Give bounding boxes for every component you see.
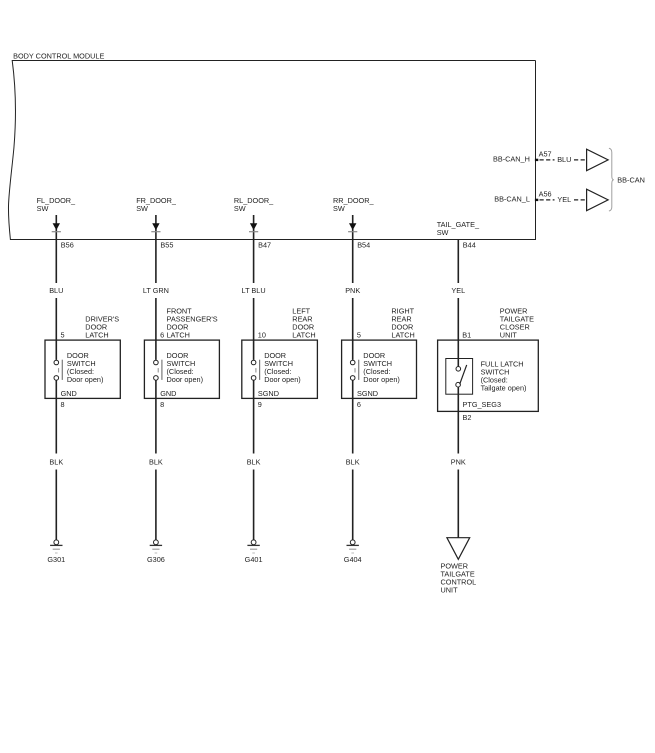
svg-text:G301: G301 xyxy=(47,555,65,564)
pin 5 (latch top) xyxy=(357,331,361,340)
pin tick A57 xyxy=(535,159,538,161)
label left rear door latch xyxy=(292,307,315,340)
label DOOR SWITCH (Closed: Door open) xyxy=(67,351,104,384)
svg-text:A57: A57 xyxy=(539,149,552,158)
svg-text:8: 8 xyxy=(160,400,164,409)
svg-text:G401: G401 xyxy=(245,555,263,564)
pin B47 xyxy=(258,240,271,249)
svg-text:B2: B2 xyxy=(463,413,472,422)
svg-text:BLK: BLK xyxy=(49,457,63,466)
svg-text:8: 8 xyxy=(61,400,65,409)
svg-text:PNK: PNK xyxy=(451,457,466,466)
wire BCM FL_DOOR_ stub with arrowhead xyxy=(52,215,61,240)
svg-text:PNK: PNK xyxy=(345,286,360,295)
B-CAN bus brace xyxy=(609,148,614,211)
wire LT GRN from pin B55 to latch xyxy=(155,240,157,341)
svg-text:LT BLU: LT BLU xyxy=(242,286,266,295)
label FULL LATCH SWITCH (Closed: Tailgate open) xyxy=(481,360,527,393)
svg-text:G404: G404 xyxy=(344,555,362,564)
wire BLK from front passenger's door latch to ground G306 xyxy=(155,380,157,540)
node BB-CAN_H label xyxy=(493,155,530,164)
svg-text:SGND: SGND xyxy=(357,389,378,398)
pin 5 (latch top) xyxy=(61,331,65,340)
svg-text:6: 6 xyxy=(160,331,164,340)
ground G404 xyxy=(344,540,362,564)
wire YEL from pin B44 to power tailgate closer unit xyxy=(457,240,459,341)
svg-text:GND: GND xyxy=(160,389,176,398)
svg-text:LT GRN: LT GRN xyxy=(143,286,169,295)
svg-text:B54: B54 xyxy=(357,240,370,249)
wire BLU from pin B56 to latch xyxy=(55,240,57,341)
svg-text:BLK: BLK xyxy=(149,457,163,466)
label power tailgate closer unit xyxy=(500,307,534,340)
svg-text:BLK: BLK xyxy=(247,457,261,466)
svg-text:A56: A56 xyxy=(539,189,552,198)
wire BLK from left rear door latch to ground G401 xyxy=(253,380,255,540)
wire PNK from pin B54 to latch xyxy=(352,240,354,341)
wire BLK from right rear door latch to ground G404 xyxy=(352,380,354,540)
svg-text:LATCH: LATCH xyxy=(391,331,414,340)
pin 10 (latch top) xyxy=(258,331,266,340)
svg-text:YEL: YEL xyxy=(557,195,571,204)
svg-text:Door open): Door open) xyxy=(67,375,104,384)
svg-text:BLK: BLK xyxy=(346,457,360,466)
label DOOR SWITCH (Closed: Door open) xyxy=(363,351,400,384)
CAN low buffer triangle xyxy=(587,189,609,210)
svg-text:6: 6 xyxy=(357,400,361,409)
svg-text:B1: B1 xyxy=(462,331,471,340)
svg-text:BB-CAN_L: BB-CAN_L xyxy=(494,195,530,204)
CAN high buffer triangle xyxy=(587,149,609,170)
wire colour label PNK xyxy=(451,457,466,466)
node FL_DOOR_SW label xyxy=(37,196,76,213)
wire colour label PNK xyxy=(345,286,360,295)
full latch switch symbol xyxy=(456,340,467,387)
node FR_DOOR_SW label xyxy=(136,196,177,213)
wire BCM RL_DOOR_ stub with arrowhead xyxy=(249,215,258,240)
front passenger's door latch box xyxy=(144,340,219,398)
wire BLU dashed CAN line xyxy=(540,159,587,161)
pin B1 xyxy=(462,331,471,340)
wire YEL dashed CAN line xyxy=(540,199,587,201)
svg-text:SW: SW xyxy=(437,228,449,237)
wire colour label LT BLU xyxy=(242,286,266,295)
pin 8 (latch bottom) xyxy=(160,400,164,409)
wire colour label YEL xyxy=(451,286,465,295)
node RR_DOOR_SW label xyxy=(333,196,374,213)
wire BLK from driver's door latch to ground G301 xyxy=(55,380,57,540)
full latch switch inner box xyxy=(446,359,473,395)
pin tick A56 xyxy=(535,199,538,201)
pin B54 xyxy=(357,240,370,249)
wire colour label BLK xyxy=(49,457,63,466)
svg-text:Tailgate open): Tailgate open) xyxy=(481,384,527,393)
pin B44 xyxy=(463,240,476,249)
ground G306 xyxy=(147,540,165,564)
node GND label xyxy=(160,389,176,398)
pin 9 (latch bottom) xyxy=(258,400,262,409)
label DOOR SWITCH (Closed: Door open) xyxy=(264,351,301,384)
svg-text:10: 10 xyxy=(258,331,266,340)
svg-text:G306: G306 xyxy=(147,555,165,564)
wire colour label BLU xyxy=(49,286,63,295)
node BB-CAN_L label xyxy=(494,195,530,204)
node RL_DOOR_SW label xyxy=(234,196,274,213)
svg-text:B47: B47 xyxy=(258,240,271,249)
node SGND label xyxy=(357,389,378,398)
svg-text:B55: B55 xyxy=(160,240,173,249)
door switch in driver's door latch xyxy=(54,340,62,380)
wire BCM FR_DOOR_ stub with arrowhead xyxy=(151,215,160,240)
svg-text:9: 9 xyxy=(258,400,262,409)
pin 6 (latch top) xyxy=(160,331,164,340)
svg-text:Door open): Door open) xyxy=(363,375,400,384)
svg-text:5: 5 xyxy=(61,331,65,340)
svg-text:LATCH: LATCH xyxy=(292,331,315,340)
pin B2 xyxy=(463,413,472,422)
power tailgate closer unit box xyxy=(438,340,539,411)
label power tailgate control unit xyxy=(441,562,477,595)
svg-text:B56: B56 xyxy=(61,240,74,249)
pin A57 xyxy=(539,149,552,158)
pin 6 (latch bottom) xyxy=(357,400,361,409)
svg-text:BB-CAN: BB-CAN xyxy=(617,175,645,184)
svg-text:PTG_SEG3: PTG_SEG3 xyxy=(463,400,502,409)
net BB-CAN label xyxy=(617,175,645,184)
svg-text:5: 5 xyxy=(357,331,361,340)
wire colour label BLU xyxy=(557,155,571,164)
svg-text:LATCH: LATCH xyxy=(167,331,190,340)
node GND label xyxy=(61,389,77,398)
pin B56 xyxy=(61,240,74,249)
wire colour label LT GRN xyxy=(143,286,169,295)
node PTG_SEG3 label xyxy=(463,400,502,409)
svg-text:GND: GND xyxy=(61,389,77,398)
wire colour label BLK xyxy=(247,457,261,466)
svg-text:LATCH: LATCH xyxy=(85,331,108,340)
svg-text:SW: SW xyxy=(234,204,246,213)
off-page connector arrow to power tailgate control unit xyxy=(447,538,470,560)
wire colour label BLK xyxy=(149,457,163,466)
label right rear door latch xyxy=(391,307,414,340)
svg-text:BLU: BLU xyxy=(49,286,63,295)
svg-text:SW: SW xyxy=(333,204,345,213)
wire LT BLU from pin B47 to latch xyxy=(253,240,255,341)
svg-text:BB-CAN_H: BB-CAN_H xyxy=(493,155,530,164)
svg-text:Door open): Door open) xyxy=(264,375,301,384)
svg-text:BLU: BLU xyxy=(557,155,571,164)
wire PNK from pin B2 to power tailgate control unit xyxy=(457,387,459,538)
svg-text:UNIT: UNIT xyxy=(441,586,459,595)
body control module box xyxy=(8,51,535,239)
door switch in front passenger's door latch xyxy=(154,340,162,380)
pin 8 (latch bottom) xyxy=(61,400,65,409)
pin B55 xyxy=(160,240,173,249)
node SGND label xyxy=(258,389,279,398)
svg-text:SW: SW xyxy=(37,204,49,213)
wire BCM RR_DOOR_ stub with arrowhead xyxy=(348,215,357,240)
driver's door latch box xyxy=(45,340,120,398)
svg-text:B44: B44 xyxy=(463,240,476,249)
svg-text:SW: SW xyxy=(136,204,148,213)
svg-text:SGND: SGND xyxy=(258,389,279,398)
door switch in left rear door latch xyxy=(251,340,259,380)
pin A56 xyxy=(539,189,552,198)
label DOOR SWITCH (Closed: Door open) xyxy=(167,351,204,384)
wire colour label BLK xyxy=(346,457,360,466)
wire colour label YEL xyxy=(557,195,571,204)
label driver's door latch xyxy=(85,315,119,340)
door switch in right rear door latch xyxy=(350,340,358,380)
node TAIL_GATE_SW label xyxy=(437,220,480,237)
ground G401 xyxy=(245,540,263,564)
svg-text:Door open): Door open) xyxy=(167,375,204,384)
left rear door latch box xyxy=(242,340,318,398)
svg-text:YEL: YEL xyxy=(451,286,465,295)
label front passenger's door latch xyxy=(167,307,218,340)
ground G301 xyxy=(47,540,65,564)
svg-text:UNIT: UNIT xyxy=(500,331,518,340)
svg-text:BODY CONTROL MODULE: BODY CONTROL MODULE xyxy=(13,51,104,60)
right rear door latch box xyxy=(342,340,417,398)
